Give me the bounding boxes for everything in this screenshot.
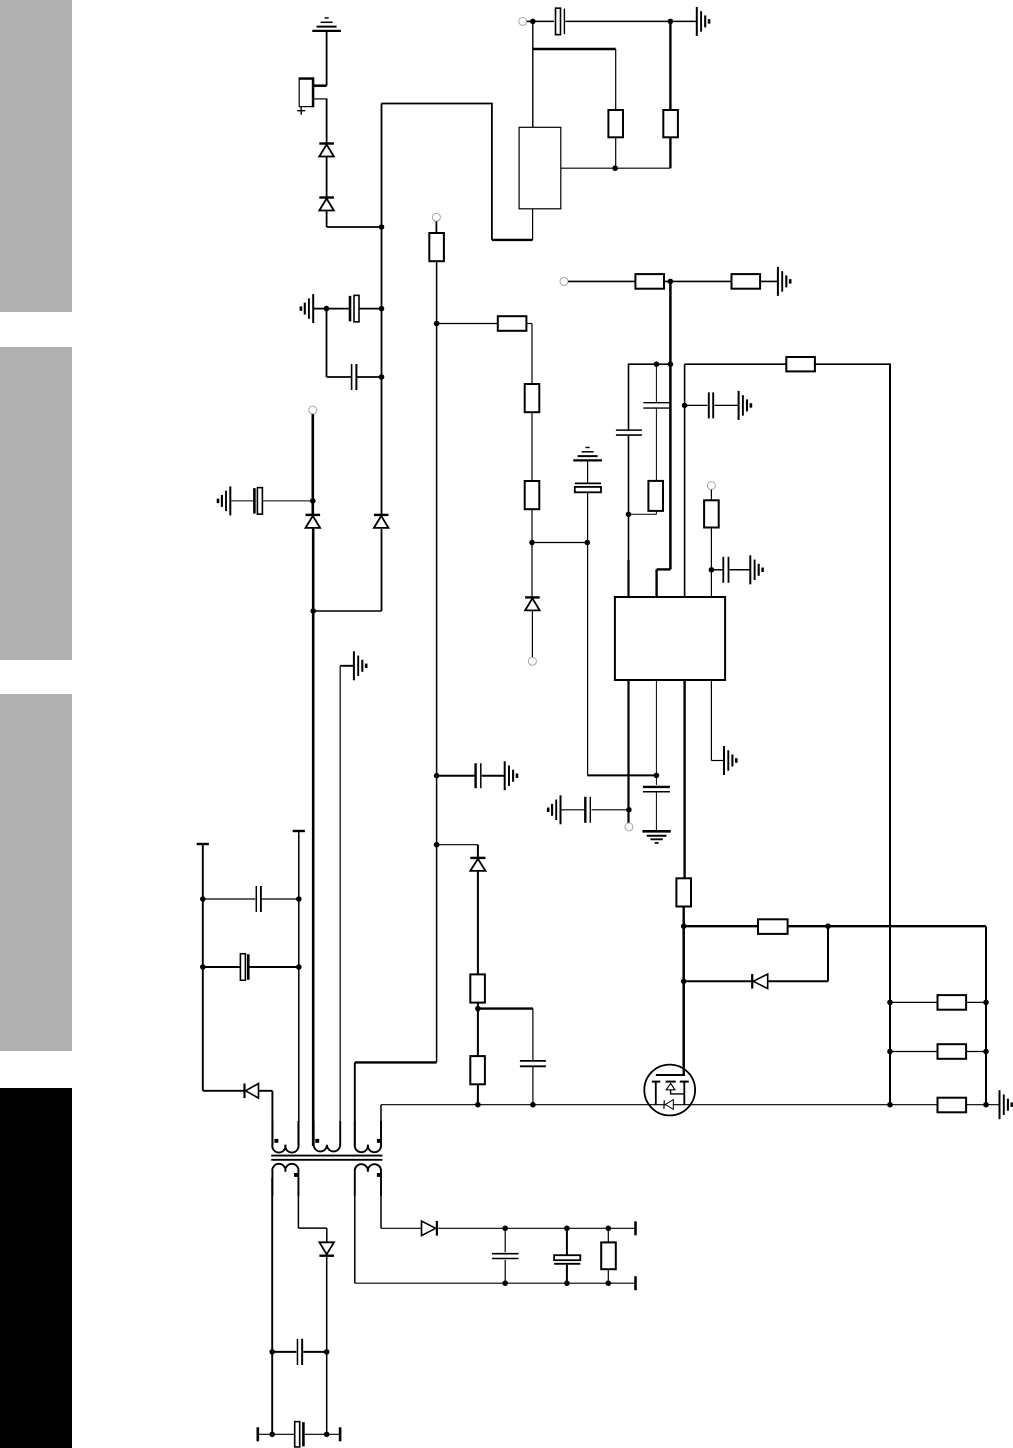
wire row926 <box>684 925 758 927</box>
capacitor C11 <box>476 763 481 788</box>
wire R1-node <box>615 137 617 168</box>
capacitor C12 <box>520 1061 546 1066</box>
terminal T12 <box>634 1276 637 1290</box>
junction <box>626 807 632 813</box>
terminal T2 <box>519 17 527 25</box>
wire node-C8 <box>711 569 722 571</box>
wire node-C4 <box>533 20 554 22</box>
junction <box>887 1102 893 1108</box>
junction <box>502 1280 508 1286</box>
junction <box>200 964 206 970</box>
transformer TR1 winding P1 <box>272 1121 298 1153</box>
resistor R3 <box>635 274 664 289</box>
capacitor C1 <box>350 295 359 322</box>
transformer TR1 winding S1 <box>272 1164 298 1196</box>
wire row364 left <box>629 363 671 365</box>
wire T1-R5 <box>435 221 437 233</box>
wire row899 <box>203 898 299 900</box>
wire C12 down <box>532 1066 534 1104</box>
junction <box>825 923 831 929</box>
wire row775 <box>587 774 656 776</box>
wire U1 pin x684 down <box>683 680 685 879</box>
diode D1 <box>319 144 334 157</box>
junction <box>654 773 660 779</box>
wire main line A <box>381 104 383 612</box>
wire node-R7 <box>437 323 498 325</box>
junction <box>296 964 302 970</box>
ground GND6 chassis <box>739 391 751 420</box>
wire row1002 <box>890 1001 986 1003</box>
wire R18 down <box>477 1084 479 1105</box>
wire D2 to node <box>327 211 382 228</box>
junction <box>296 896 302 902</box>
junction <box>310 498 316 504</box>
junction <box>379 306 385 312</box>
ground GND9 chassis <box>724 746 736 775</box>
wire gnd10-C10 <box>560 809 584 811</box>
polarity dot S2 <box>377 1173 381 1177</box>
ground GND8 earth <box>642 831 670 843</box>
ground GND11 chassis <box>505 761 517 790</box>
capacitor C9 <box>643 787 670 792</box>
wire C11-gnd <box>482 775 505 777</box>
wire x656 lower <box>655 408 657 481</box>
junction <box>324 1349 330 1355</box>
wire row1090 <box>203 1090 245 1092</box>
junction <box>434 842 440 848</box>
wire D7-x828 <box>768 926 828 981</box>
junction <box>612 165 618 171</box>
polarity dot P2 <box>315 1139 319 1143</box>
wire U1 top pin1 <box>627 560 629 597</box>
sidebar tab 4 <box>0 1088 72 1448</box>
wire row1051 <box>890 1051 986 1053</box>
terminal T5 <box>625 823 633 831</box>
capacitor C16 <box>297 1339 302 1365</box>
junction <box>502 1226 508 1232</box>
wire C4-node2 <box>566 20 697 22</box>
junction <box>529 540 535 546</box>
sidebar tab 3 <box>0 694 72 1051</box>
wire R6-corner <box>815 363 890 1104</box>
diode D10 <box>422 1221 437 1236</box>
junction <box>324 1432 330 1438</box>
wire row1352 <box>272 1351 327 1353</box>
wire U2 bottom pin <box>532 209 534 240</box>
ground GND12 chassis <box>1000 1090 1012 1119</box>
wire C10-node <box>591 809 628 811</box>
wire row1228 <box>438 1227 635 1229</box>
ground GND14 chassis <box>354 651 366 680</box>
resistor R14 <box>938 995 967 1010</box>
wire D9 down <box>326 1256 328 1434</box>
wire x683 down <box>682 926 685 1066</box>
wire U2 right pin <box>561 167 671 169</box>
resistor R15 <box>938 1044 967 1059</box>
wire row967 <box>203 966 299 968</box>
capacitor C5 <box>616 430 642 435</box>
junction <box>564 1226 570 1232</box>
terminal T10 <box>256 1427 259 1441</box>
junction <box>310 608 316 614</box>
capacitor C6 <box>643 403 669 408</box>
capacitor C4 <box>556 8 565 35</box>
wire C3 down <box>587 492 589 775</box>
junction <box>606 1226 612 1232</box>
wire row926 r <box>787 926 986 1104</box>
junction <box>324 306 330 312</box>
diode D6 <box>470 858 485 871</box>
wire node-D6 <box>437 845 478 858</box>
wire row1283 <box>355 1282 636 1284</box>
wire x670 top <box>669 21 671 110</box>
ground GND3 earth <box>573 448 602 461</box>
junction <box>681 923 687 929</box>
wire C18 stubs <box>504 1228 506 1283</box>
junction <box>530 19 536 25</box>
capacitor C15 <box>254 488 262 515</box>
wire S1 left leg <box>271 1178 273 1434</box>
resistor R16 <box>938 1098 967 1113</box>
resistor R17 <box>470 974 485 1002</box>
terminal T7 <box>528 657 536 665</box>
wire C8-gnd <box>730 569 751 571</box>
wire B1 pin top <box>314 84 327 87</box>
transformer TR1 winding S2 <box>355 1164 381 1196</box>
wire gnd14 <box>340 666 354 1146</box>
resistor R10 <box>648 481 663 511</box>
capacitor C18 <box>492 1254 519 1259</box>
wire row1434 <box>258 1433 340 1435</box>
resistor R19 <box>601 1242 616 1269</box>
wire R2 pin bottom <box>669 137 671 168</box>
wire gnd3-C3 <box>587 462 589 484</box>
resistor R1 <box>608 110 623 137</box>
junction <box>585 540 591 546</box>
ground GND5 chassis <box>778 267 790 296</box>
wire R9-node <box>531 509 533 542</box>
capacitor C17 <box>295 1422 304 1447</box>
terminal T9 <box>309 406 317 414</box>
wire node-C7 <box>685 404 708 406</box>
diode D3 <box>306 515 321 528</box>
wire x628 upper <box>628 363 630 430</box>
wire row1008 <box>478 1009 533 1061</box>
junction <box>606 1280 612 1286</box>
junction <box>668 19 674 25</box>
wire w3 right <box>380 1105 382 1146</box>
junction <box>530 1102 536 1108</box>
wire x202 <box>202 844 204 1091</box>
wire x298 <box>298 831 300 1146</box>
wire C2-lineA <box>357 376 381 378</box>
wire D5-T7 <box>531 610 533 657</box>
junction <box>682 403 688 409</box>
wire row611 <box>313 610 381 612</box>
capacitor C10 <box>585 797 590 823</box>
wire D1-D2 <box>326 157 328 198</box>
junction <box>626 512 632 518</box>
junction <box>564 1280 570 1286</box>
diode D8 <box>245 1084 259 1099</box>
wire R4-gnd <box>760 280 778 282</box>
terminal T6 <box>197 843 209 845</box>
polarity dot S1 <box>294 1173 298 1177</box>
wire T9 down <box>311 414 314 515</box>
ground GND4 chassis <box>697 7 709 36</box>
terminal T1 <box>432 213 440 221</box>
wire C19 stubs <box>566 1228 568 1283</box>
wire node-D7 <box>684 980 752 982</box>
junction <box>434 773 440 779</box>
wire jog <box>657 569 671 597</box>
resistor R12 <box>676 878 691 906</box>
wire node-C11 <box>437 775 475 777</box>
junction <box>709 567 715 573</box>
ground GND2 chassis <box>301 294 313 323</box>
capacitor C2 <box>352 364 357 390</box>
resistor R18 <box>470 1056 485 1084</box>
wire R7-corner <box>526 324 532 385</box>
wire U1 pin x656 down <box>655 680 657 775</box>
junction <box>681 979 687 985</box>
polarity dot P3 <box>377 1139 381 1143</box>
resistor R9 <box>525 481 540 509</box>
wire T4-R11 <box>710 490 712 501</box>
transformer TR1 core <box>271 1156 382 1160</box>
wire node down <box>327 309 352 377</box>
wire U1 pin x628 down <box>627 680 629 823</box>
junction <box>200 896 206 902</box>
wire row364 right <box>685 364 787 597</box>
junction <box>379 224 385 230</box>
junction <box>379 374 385 380</box>
junction <box>475 1102 481 1108</box>
ground GND10 chassis <box>548 795 560 824</box>
junction <box>887 1000 893 1006</box>
transformer TR1 winding P2 <box>314 1121 341 1151</box>
junction <box>269 1349 275 1355</box>
wire R3-R4 <box>664 280 732 282</box>
junction <box>887 1049 893 1055</box>
resistor R6 <box>786 357 815 371</box>
wire C1-lineA <box>359 308 381 310</box>
wire R5 down <box>436 261 438 1062</box>
ground GND7 chassis <box>750 555 762 584</box>
polarity dot P1 <box>274 1139 278 1143</box>
battery B1 <box>297 77 314 114</box>
resistor R13 <box>758 919 788 934</box>
junction <box>983 1049 989 1055</box>
IC U1 <box>615 597 725 680</box>
terminal T4 <box>707 482 715 490</box>
terminal T3 <box>560 277 568 285</box>
wire x670 main <box>669 281 672 569</box>
wire row1105 right <box>890 1104 1000 1106</box>
wire gate row <box>381 1104 890 1106</box>
capacitor C19 <box>554 1255 580 1264</box>
wire D8-winding <box>259 1091 273 1146</box>
junction <box>983 1000 989 1006</box>
wire node-D5 <box>531 543 533 598</box>
wire node down x532.8 <box>532 21 534 127</box>
wire row49 <box>533 49 616 110</box>
diode D4 <box>374 515 389 528</box>
wire B1 pin bottom <box>314 99 328 144</box>
junction <box>668 361 674 367</box>
wire row542 <box>532 542 587 544</box>
wire x656 cap chain <box>655 775 657 785</box>
junction <box>983 1102 989 1108</box>
diode D5 <box>525 597 540 610</box>
wire node-C1 <box>327 308 349 310</box>
junction <box>475 1006 481 1012</box>
junction <box>654 361 660 367</box>
capacitor C3 <box>575 483 601 492</box>
terminal T11 <box>339 1427 342 1441</box>
resistor R2 <box>663 110 678 137</box>
wire R11-node <box>710 528 712 598</box>
capacitor C8 <box>723 557 728 583</box>
capacitor C14 <box>240 954 248 981</box>
wire R10-node <box>629 511 657 514</box>
wire gnd2-node <box>314 308 327 310</box>
transformer TR1 winding P3 <box>355 1121 381 1152</box>
diode D2 <box>319 198 334 211</box>
wire S1 right leg <box>298 1178 326 1242</box>
wire D3 down <box>312 528 315 1146</box>
terminal T8 <box>293 830 305 832</box>
ground GND13 chassis <box>218 486 230 515</box>
terminal T13 <box>634 1221 637 1235</box>
wire x628 mid <box>628 435 630 597</box>
wire gnd13-C15 <box>230 500 254 502</box>
wire R17-node <box>477 1002 479 1056</box>
wire T3-R3 <box>568 280 635 282</box>
resistor R8 <box>525 384 540 412</box>
wire C15-node <box>263 500 313 502</box>
wire U1 pin x711 down <box>711 680 724 761</box>
ground GND1 earth <box>312 18 341 31</box>
wire x656 upper <box>655 364 657 402</box>
wire S2 right leg <box>381 1196 422 1228</box>
sidebar tab 1 <box>0 0 72 312</box>
capacitor C7 <box>709 392 713 418</box>
resistor R7 <box>498 316 527 331</box>
junction <box>434 321 440 327</box>
wire S2 left leg <box>354 1196 356 1283</box>
capacitor C13 <box>256 886 261 912</box>
resistor R11 <box>704 500 719 527</box>
wire top loop <box>382 103 533 240</box>
diode D9 <box>319 1242 334 1255</box>
MOSFET Q1 <box>644 1064 695 1115</box>
wire C9-gnd <box>655 792 657 831</box>
wire R12-node <box>683 906 685 926</box>
wire R19 stubs <box>607 1228 609 1283</box>
wire T2-node <box>527 20 533 22</box>
wire gnd to B1 <box>326 32 328 86</box>
wire C7-gnd <box>714 404 738 406</box>
resistor R5 <box>429 233 444 261</box>
block U2 <box>519 127 561 209</box>
junction <box>269 1432 275 1438</box>
junction <box>668 279 674 285</box>
wire w3 left <box>355 1062 437 1146</box>
diode D7 <box>752 974 768 989</box>
wire D6 down <box>477 871 479 975</box>
wire R8-R9 <box>531 412 533 481</box>
resistor R4 <box>732 274 761 289</box>
sidebar tab 2 <box>0 347 72 660</box>
